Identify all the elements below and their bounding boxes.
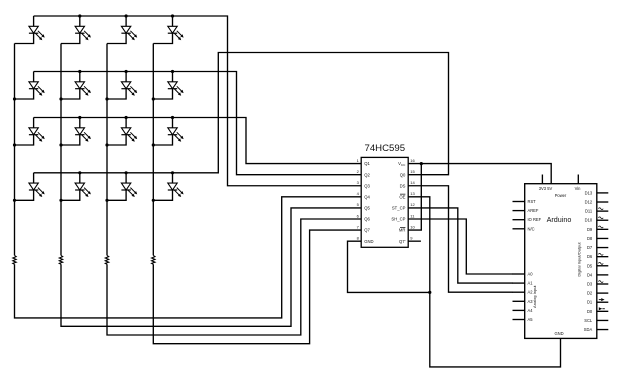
Arduino U1 body	[525, 184, 597, 339]
LED D3 (row 1, col 3)	[107, 16, 137, 44]
svg-text:Vin: Vin	[575, 186, 582, 191]
Arduino pin D0 stub	[597, 310, 609, 312]
svg-text:Q3: Q3	[364, 183, 370, 188]
Arduino pin D5 stub	[597, 265, 609, 267]
LED D8 (row 2, col 4)	[153, 72, 183, 100]
junction col3 row3 join	[105, 143, 108, 146]
junction row1 x col3 tap	[125, 14, 128, 17]
Arduino pin D7 stub	[597, 247, 609, 249]
junction row3 x col4 tap	[171, 116, 174, 119]
junction row1 x col2 tap	[78, 14, 81, 17]
svg-text:Q0: Q0	[400, 172, 406, 177]
Arduino pin D2 stub	[597, 292, 609, 294]
Arduino Vin stub	[577, 175, 579, 184]
Arduino D9 PWM mark	[598, 226, 603, 228]
wire DS pin14 to Arduino A2	[408, 186, 513, 292]
Arduino pin RST stub	[513, 201, 525, 203]
svg-text:A1: A1	[528, 281, 534, 286]
Arduino pin D4 stub	[597, 274, 609, 276]
Arduino pin A5 stub	[513, 319, 525, 321]
LED D1 (row 1, col 1)	[15, 16, 45, 44]
junction row4 x col2 tap	[78, 171, 81, 174]
Arduino pin A1 stub	[513, 282, 525, 284]
svg-text:Analog Input: Analog Input	[532, 285, 537, 308]
resistor R2	[59, 255, 62, 264]
Arduino D6 PWM mark	[598, 253, 603, 255]
svg-text:Q7': Q7'	[399, 239, 406, 244]
Arduino D5 PWM mark	[598, 262, 603, 264]
svg-text:14: 14	[410, 180, 415, 185]
svg-text:13: 13	[410, 191, 415, 196]
svg-text:GND: GND	[554, 331, 563, 336]
junction col4 row2 join	[152, 97, 155, 100]
junction row2 x col4 tap	[171, 70, 174, 73]
svg-text:MR: MR	[399, 228, 406, 233]
svg-text:D11: D11	[585, 209, 593, 214]
Arduino pin A0 stub	[513, 273, 525, 275]
Arduino pin D1 stub	[597, 301, 609, 303]
Arduino pin N/C stub	[513, 228, 525, 230]
svg-text:D5: D5	[587, 263, 593, 268]
wire column 3 to 74HC595 pin 6 Q6	[107, 219, 361, 335]
junction col2 row4 join	[59, 199, 62, 202]
junction row3 x col2 tap	[78, 116, 81, 119]
junction col3 row4 join	[105, 199, 108, 202]
svg-text:GND: GND	[364, 239, 373, 244]
wire column 4 to 74HC595 pin 7 Q7	[153, 230, 361, 344]
svg-text:D3: D3	[587, 282, 593, 287]
resistor R1	[13, 255, 16, 264]
svg-text:A0: A0	[528, 272, 534, 277]
Arduino D1 TX mark	[599, 299, 601, 301]
IC U2 74HC595 body	[361, 157, 408, 247]
Arduino pin D8 stub	[597, 237, 609, 239]
LED D10 (row 3, col 2)	[61, 118, 91, 146]
junction col4 row4 join	[152, 199, 155, 202]
Arduino pin D9 stub	[597, 228, 609, 230]
wire column 1 cathode bus	[14, 44, 16, 256]
LED D15 (row 4, col 3)	[107, 173, 137, 201]
svg-text:D8: D8	[587, 236, 593, 241]
Arduino pin D10 stub	[597, 219, 609, 221]
Arduino pin A4 stub	[513, 309, 525, 311]
svg-text:VCC: VCC	[398, 161, 406, 167]
Arduino pin AREF stub	[513, 210, 525, 212]
svg-text:Q1: Q1	[364, 161, 370, 166]
Arduino pin A2 stub	[513, 291, 525, 293]
svg-text:Digital Input/Output: Digital Input/Output	[576, 241, 581, 276]
svg-text:D0: D0	[587, 309, 593, 314]
svg-text:AREF: AREF	[528, 208, 539, 213]
resistor R4	[152, 255, 155, 264]
junction col3 row2 join	[105, 97, 108, 100]
svg-text:3V3: 3V3	[539, 186, 547, 191]
svg-text:D12: D12	[585, 200, 593, 205]
svg-text:10: 10	[410, 224, 415, 229]
svg-text:74HC595: 74HC595	[365, 143, 406, 154]
Arduino pin D3 stub	[597, 283, 609, 285]
wire row4 anodes to 74HC595 pin 15 Q0	[34, 53, 449, 175]
resistor R3	[105, 255, 108, 264]
Arduino pin IO REF stub	[513, 219, 525, 221]
svg-text:5V: 5V	[547, 186, 552, 191]
svg-text:A5: A5	[528, 317, 534, 322]
junction row2 x col3 tap	[125, 70, 128, 73]
svg-text:Q6: Q6	[364, 217, 370, 222]
svg-text:Q5: Q5	[364, 206, 370, 211]
svg-text:RST: RST	[528, 199, 537, 204]
Arduino pin D11 stub	[597, 210, 609, 212]
junction col1 row3 join	[13, 143, 16, 146]
Arduino D3 PWM mark	[598, 281, 603, 283]
svg-text:D2: D2	[587, 291, 593, 296]
junction col1 row2 join	[13, 97, 16, 100]
wire OE pin13 and GND rail to Arduino GND	[408, 197, 560, 367]
LED D11 (row 3, col 3)	[107, 118, 137, 146]
LED D2 (row 1, col 2)	[61, 16, 91, 44]
svg-text:16: 16	[410, 158, 415, 163]
Arduino D11 PWM mark	[598, 208, 603, 210]
LED D9 (row 3, col 1)	[15, 118, 45, 146]
LED D16 (row 4, col 4)	[153, 173, 183, 201]
Arduino pin SDA stub	[597, 329, 609, 331]
Arduino pin D12 stub	[597, 201, 609, 203]
svg-text:Q4: Q4	[364, 194, 370, 199]
wire MR pin10 to VCC	[408, 164, 421, 230]
svg-text:D6: D6	[587, 254, 593, 259]
junction col2 row3 join	[59, 143, 62, 146]
svg-text:12: 12	[410, 202, 415, 207]
junction col4 row3 join	[152, 143, 155, 146]
wire row2 anodes to 74HC595 pin 2 Q2	[34, 72, 362, 175]
wire column 3 cathode bus	[106, 44, 108, 256]
LED D13 (row 4, col 1)	[15, 173, 45, 201]
Arduino 3V3 stub	[541, 175, 543, 184]
junction row3 x col3 tap	[125, 116, 128, 119]
wire row3 anodes to 74HC595 pin 1 Q1	[34, 118, 362, 164]
Arduino pin D6 stub	[597, 256, 609, 258]
wire SH_CP pin11 to Arduino A0	[408, 219, 513, 274]
wire column 1 to 74HC595 pin 4 Q4	[15, 197, 362, 318]
svg-text:SCL: SCL	[584, 318, 593, 323]
wire column 2 to 74HC595 pin 5 Q5	[61, 208, 361, 326]
LED D14 (row 4, col 2)	[61, 173, 91, 201]
svg-text:D7: D7	[587, 245, 593, 250]
wire VCC: pin16 to Arduino 5V	[408, 164, 551, 184]
junction VCC MR node	[420, 162, 423, 165]
svg-text:DS: DS	[400, 183, 406, 188]
Arduino D0 RX mark	[599, 307, 602, 310]
LED D4 (row 1, col 4)	[153, 16, 183, 44]
svg-text:ST_CP: ST_CP	[392, 206, 406, 211]
svg-text:Power: Power	[555, 193, 567, 198]
svg-text:D1: D1	[587, 300, 593, 305]
wire ST_CP pin12 to Arduino A1	[408, 208, 513, 283]
junction row4 x col3 tap	[125, 171, 128, 174]
svg-text:Q7: Q7	[364, 228, 370, 233]
junction row4 x col4 tap	[171, 171, 174, 174]
Arduino pin SCL stub	[597, 319, 609, 321]
junction col2 row2 join	[59, 97, 62, 100]
svg-text:D4: D4	[587, 272, 593, 277]
wire column 2 cathode bus	[60, 44, 62, 256]
wire column 4 cathode bus	[152, 44, 154, 256]
74HC595 pin 9 stub Q7'	[408, 240, 421, 242]
svg-text:D9: D9	[587, 227, 593, 232]
LED D7 (row 2, col 3)	[107, 72, 137, 100]
svg-text:N/C: N/C	[528, 226, 535, 231]
LED D12 (row 3, col 4)	[153, 118, 183, 146]
svg-text:Arduino: Arduino	[547, 215, 572, 224]
svg-text:Q2: Q2	[364, 172, 370, 177]
svg-text:SH_CP: SH_CP	[391, 217, 405, 222]
LED D6 (row 2, col 2)	[61, 72, 91, 100]
junction row1 x col4 tap	[171, 14, 174, 17]
wire row1 anodes to 74HC595 pin 3 Q3	[34, 16, 362, 186]
Arduino pin D13 stub	[597, 192, 609, 194]
wire 74HC595 pin8 GND branch	[348, 241, 430, 292]
junction col1 row4 join	[13, 199, 16, 202]
junction GND node	[428, 291, 431, 294]
svg-text:OE: OE	[399, 194, 405, 199]
Arduino D10 PWM mark	[598, 217, 603, 219]
junction row2 x col2 tap	[78, 70, 81, 73]
svg-text:D10: D10	[585, 218, 593, 223]
svg-text:15: 15	[410, 169, 415, 174]
svg-text:D13: D13	[585, 190, 593, 195]
Arduino pin A3 stub	[513, 300, 525, 302]
svg-text:IO REF: IO REF	[528, 217, 542, 222]
LED D5 (row 2, col 1)	[15, 72, 45, 100]
svg-text:SDA: SDA	[584, 327, 593, 332]
